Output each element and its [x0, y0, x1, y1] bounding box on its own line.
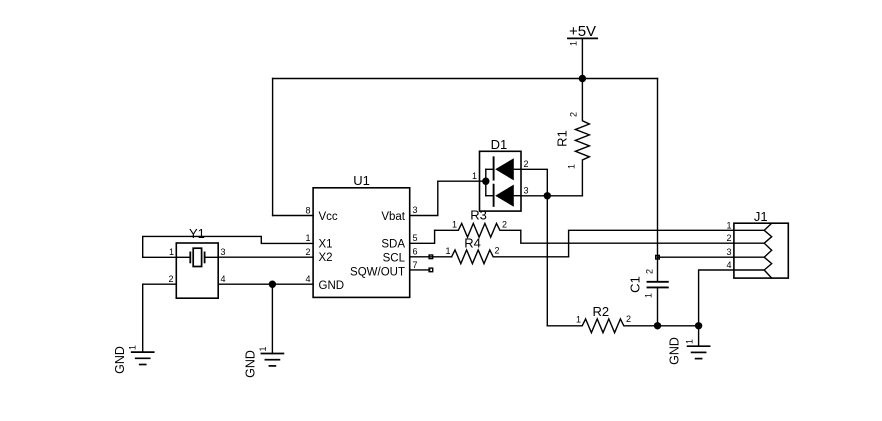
wire R2 branch vertical — [546, 196, 548, 326]
svg-text:2: 2 — [305, 247, 310, 257]
svg-text:2: 2 — [168, 274, 173, 284]
svg-text:1: 1 — [644, 293, 654, 298]
svg-text:4: 4 — [221, 274, 226, 284]
svg-text:3: 3 — [524, 186, 529, 196]
svg-text:GND: GND — [668, 337, 682, 365]
wire to J1 pin3 — [658, 256, 734, 258]
chip U1 — [305, 173, 417, 297]
power +5V — [568, 23, 597, 46]
wire R4 to J1 pin1 — [569, 230, 734, 256]
wire SDA to R3 — [410, 230, 435, 243]
connector J1 — [726, 209, 788, 278]
ground symbol right — [668, 326, 710, 365]
resistor R4 — [445, 235, 568, 263]
junction dot D1 pin1 — [482, 178, 489, 185]
svg-text:3: 3 — [726, 247, 731, 257]
svg-text:2: 2 — [626, 314, 631, 324]
resistor R3 — [435, 208, 521, 238]
svg-text:D1: D1 — [491, 137, 508, 152]
wire +5V right vertical to C1 — [657, 79, 659, 282]
crystal Y1 — [168, 226, 225, 298]
wire Vcc stub — [273, 215, 314, 217]
svg-text:X1: X1 — [319, 238, 333, 250]
ground symbol left — [113, 345, 154, 374]
wire Y1 pin4 to U1 GND — [218, 283, 313, 285]
wire R3 to J1 pin2 — [521, 230, 734, 243]
svg-text:Vcc: Vcc — [319, 211, 338, 223]
svg-text:2: 2 — [645, 269, 655, 274]
wire R1 bottom to D1 pin 3 — [521, 195, 583, 197]
junction dot right GND — [695, 322, 702, 329]
wire Y1 pin1 up-over to X1 — [143, 236, 313, 257]
svg-text:1: 1 — [685, 339, 695, 344]
svg-text:1: 1 — [472, 171, 477, 181]
no-connect square J1 pin3 tap — [656, 255, 660, 259]
svg-text:R1: R1 — [555, 130, 570, 147]
D1 lower diode — [486, 195, 494, 197]
wire D1 pin2 over to junction — [521, 169, 547, 196]
svg-text:GND: GND — [319, 280, 345, 292]
J1 internal pin lines — [734, 229, 764, 231]
wire SQW/OUT stub — [410, 269, 430, 271]
svg-text:U1: U1 — [353, 173, 370, 188]
no-connect square on SQW/OUT — [429, 268, 433, 272]
svg-text:1: 1 — [128, 345, 138, 350]
wire top horizontal rail — [273, 78, 658, 80]
svg-text:X2: X2 — [319, 252, 333, 264]
svg-text:6: 6 — [413, 246, 418, 256]
no-connect square on SCL — [429, 255, 433, 259]
svg-text:8: 8 — [305, 205, 310, 215]
wire left vertical to Vcc — [272, 79, 274, 216]
svg-text:1: 1 — [305, 233, 310, 243]
wire J1 pin4 down to GND rail — [699, 270, 734, 326]
ground symbol center — [244, 346, 284, 377]
D1 upper diode — [486, 168, 494, 170]
J1 sawtooth — [764, 223, 772, 278]
resistor R2 — [547, 304, 698, 333]
svg-text:GND: GND — [113, 346, 127, 374]
junction dot GND net — [269, 281, 276, 288]
svg-text:1: 1 — [576, 315, 581, 325]
svg-text:Y1: Y1 — [189, 226, 205, 241]
svg-text:C1: C1 — [628, 276, 643, 293]
svg-text:5: 5 — [413, 233, 418, 243]
svg-text:2: 2 — [726, 233, 731, 243]
svg-text:R2: R2 — [592, 304, 609, 319]
svg-text:4: 4 — [726, 260, 731, 270]
junction dot at +5V rail — [579, 75, 586, 82]
svg-text:7: 7 — [413, 260, 418, 270]
diode D1 — [472, 137, 529, 211]
svg-text:1: 1 — [567, 164, 577, 169]
svg-text:SDA: SDA — [381, 239, 405, 251]
svg-text:SQW/OUT: SQW/OUT — [350, 266, 405, 278]
svg-text:R3: R3 — [470, 208, 487, 223]
capacitor C1 — [628, 269, 668, 326]
svg-text:2: 2 — [524, 159, 529, 169]
svg-text:GND: GND — [244, 350, 258, 378]
resistor R1 — [555, 79, 590, 196]
junction dot C1 bottom — [654, 322, 661, 329]
svg-text:2: 2 — [569, 112, 579, 117]
svg-text:1: 1 — [569, 41, 579, 46]
svg-text:2: 2 — [495, 246, 500, 256]
wire GND drop center — [271, 284, 273, 353]
svg-text:1: 1 — [258, 346, 268, 351]
svg-text:3: 3 — [221, 247, 226, 257]
wire Y1 pin2 to left GND — [143, 284, 177, 352]
svg-text:+5V: +5V — [569, 23, 596, 40]
svg-text:1: 1 — [445, 246, 450, 256]
svg-text:2: 2 — [502, 219, 507, 229]
svg-text:3: 3 — [413, 205, 418, 215]
wire +5V stub down — [581, 38, 583, 78]
svg-text:Vbat: Vbat — [381, 211, 405, 223]
svg-text:4: 4 — [305, 274, 310, 284]
wire SCL stub — [410, 256, 452, 258]
svg-text:1: 1 — [169, 247, 174, 257]
svg-text:J1: J1 — [754, 209, 768, 224]
D1 internal rail — [485, 169, 487, 195]
wire Y1 pin3 to X2 — [218, 256, 313, 258]
svg-text:R4: R4 — [464, 235, 481, 250]
svg-text:1: 1 — [726, 220, 731, 230]
svg-text:SCL: SCL — [383, 253, 406, 265]
wire Vbat to D1 pin 1 — [410, 181, 486, 215]
junction dot D1 pin3 / R2 branch — [544, 192, 551, 199]
svg-text:1: 1 — [452, 220, 457, 230]
